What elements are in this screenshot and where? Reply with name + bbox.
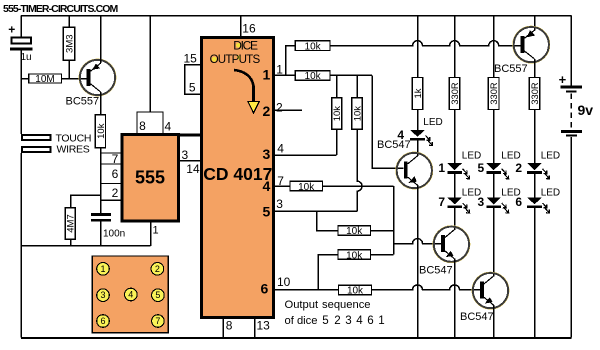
svg-text:6: 6	[367, 314, 373, 327]
svg-text:5: 5	[478, 161, 485, 175]
svg-text:7: 7	[112, 152, 119, 166]
svg-text:2: 2	[515, 161, 522, 175]
svg-text:1u: 1u	[21, 52, 32, 63]
svg-text:100n: 100n	[103, 228, 125, 239]
svg-text:1k: 1k	[413, 88, 424, 98]
svg-text:6: 6	[261, 281, 269, 297]
branch down to 10k row1	[317, 211, 338, 230]
svg-text:LED: LED	[541, 150, 560, 161]
svg-text:1: 1	[438, 161, 445, 175]
svg-text:2: 2	[276, 101, 283, 115]
resistor 330R b	[488, 78, 499, 110]
svg-text:WIRES: WIRES	[57, 144, 90, 156]
capacitor C1 1u	[8, 22, 32, 63]
wire LED4 to Q3 collector	[417, 141, 419, 157]
555 left pin boxes 7 6 2	[101, 152, 122, 201]
resistor 330R a	[449, 78, 460, 110]
svg-text:2: 2	[263, 103, 271, 119]
node A vertical	[393, 186, 395, 255]
svg-text:13: 13	[257, 318, 271, 332]
transistor Q4 BC547	[419, 226, 470, 277]
svg-text:16: 16	[242, 22, 256, 36]
svg-text:+: +	[8, 22, 15, 36]
column 330R / LED5 / LED3 / Q5	[493, 16, 495, 78]
svg-text:4M7: 4M7	[66, 214, 77, 232]
dice led 5	[152, 289, 165, 302]
svg-text:BC547: BC547	[460, 311, 494, 323]
wire 555 top bar to CD4017	[178, 133, 202, 136]
transistor Q3 BC547	[377, 139, 433, 189]
LED 6	[515, 187, 560, 213]
dice led 4	[125, 288, 138, 301]
resistor 3M3	[63, 16, 75, 79]
CD4017 IC U2	[202, 38, 274, 318]
svg-text:4: 4	[128, 290, 133, 300]
svg-text:10k: 10k	[305, 41, 322, 52]
svg-text:sequence: sequence	[322, 299, 371, 311]
wire LED3 to Q5 collector	[493, 208, 495, 276]
svg-text:3: 3	[276, 197, 283, 211]
vertical resistor 10k b	[352, 75, 364, 211]
wire Q2 collector to 330R	[534, 59, 536, 78]
svg-text:3: 3	[263, 146, 271, 162]
dice display board	[92, 256, 168, 333]
svg-text:1: 1	[276, 62, 283, 76]
LED 5	[478, 150, 521, 179]
svg-text:LED: LED	[501, 150, 520, 161]
pin 8/4 box on top of 555	[137, 16, 172, 134]
svg-text:3: 3	[478, 195, 485, 209]
svg-text:4: 4	[263, 178, 271, 194]
svg-text:5: 5	[189, 81, 196, 95]
dice led 2	[151, 263, 164, 276]
wire LED6 to bottom rail	[534, 208, 536, 338]
wire 555 pin 1	[150, 221, 152, 246]
svg-text:7: 7	[155, 316, 160, 326]
resistor 10k (row B)	[318, 250, 393, 290]
svg-text:of dice: of dice	[285, 315, 318, 327]
svg-text:330R: 330R	[489, 82, 499, 105]
svg-text:5: 5	[322, 314, 328, 327]
svg-text:BC547: BC547	[377, 139, 411, 151]
svg-text:LED: LED	[423, 117, 442, 128]
svg-text:14: 14	[186, 162, 200, 176]
capacitor 100n	[91, 200, 125, 246]
resistor 10k (row A)	[338, 226, 371, 236]
label DICE OUTPUTS	[236, 43, 240, 47]
svg-text:LED: LED	[541, 187, 560, 198]
svg-text:10k: 10k	[332, 106, 343, 122]
svg-text:1: 1	[153, 225, 159, 237]
svg-text:8: 8	[139, 119, 146, 133]
svg-text:DICE: DICE	[233, 38, 258, 52]
svg-text:15: 15	[184, 52, 198, 66]
svg-text:10k: 10k	[346, 226, 363, 237]
resistor 10k (output1 to BC547 Q3)	[295, 71, 330, 81]
svg-text:10k: 10k	[346, 250, 363, 261]
svg-text:2: 2	[155, 264, 160, 274]
svg-text:330R: 330R	[450, 82, 460, 105]
wire LED5 to LED3	[493, 174, 495, 198]
svg-text:10: 10	[277, 275, 291, 289]
wire bottom-left	[21, 245, 151, 247]
wire Q3 emitter to bottom rail	[417, 185, 419, 338]
svg-text:555: 555	[135, 167, 165, 187]
dice led 1	[97, 263, 110, 276]
svg-text:2: 2	[112, 186, 119, 200]
wire bottom rail	[21, 337, 571, 339]
svg-text:10k: 10k	[352, 106, 363, 122]
wire pin2 to 4M7	[71, 195, 101, 208]
pin 15/5 box	[184, 52, 202, 95]
resistor 10k (base of Q1)	[95, 115, 107, 153]
wire LED7 to Q4 collector	[454, 208, 456, 230]
svg-text:10k: 10k	[96, 123, 107, 139]
wire pin3 to pin14 link	[180, 160, 202, 162]
curved arrow	[234, 70, 254, 101]
LED 1	[438, 150, 481, 179]
svg-text:8: 8	[226, 318, 233, 332]
resistor 10M	[21, 74, 87, 85]
svg-text:3: 3	[182, 148, 189, 162]
wire left rail upper (cap lead)	[20, 16, 22, 37]
svg-text:10M: 10M	[35, 74, 54, 85]
wire LED1 to LED7	[454, 174, 456, 198]
svg-text:2: 2	[334, 314, 340, 327]
wire 10k to BC557 base with hops	[330, 41, 521, 46]
svg-text:OUTPUTS: OUTPUTS	[210, 53, 261, 66]
svg-text:BC547: BC547	[419, 265, 453, 277]
dice led 3	[97, 289, 110, 302]
LED 4	[397, 117, 442, 146]
svg-text:4: 4	[277, 142, 284, 156]
pin 16	[240, 16, 242, 36]
touch wires	[21, 132, 91, 155]
wire node A to Q4 base with hop	[394, 239, 441, 244]
wire top rail	[21, 15, 571, 17]
dice led 7	[152, 315, 165, 328]
wire left rail lower	[20, 153, 22, 338]
transistor Q2 BC557 (top right PNP)	[494, 16, 550, 75]
resistor 10k (output6)	[339, 285, 372, 294]
svg-text:3M3: 3M3	[65, 34, 76, 52]
svg-text:+: +	[559, 72, 567, 87]
svg-text:330R: 330R	[530, 82, 540, 105]
wire LED2 to LED6	[534, 174, 536, 198]
column 330R / LED1 / LED7 / Q4	[454, 16, 456, 78]
resistor 10k (output4)	[290, 181, 323, 191]
svg-text:10k: 10k	[347, 286, 364, 297]
svg-text:6: 6	[100, 316, 105, 326]
LED 2	[515, 150, 560, 179]
svg-text:1: 1	[378, 314, 384, 327]
battery 9v	[559, 16, 594, 338]
svg-text:4: 4	[356, 314, 363, 327]
vertical resistor 10k a	[332, 75, 344, 155]
wire Q4 emitter to bottom rail	[454, 259, 456, 338]
resistor 1k	[412, 78, 423, 110]
svg-text:7: 7	[438, 195, 445, 209]
svg-text:3: 3	[345, 314, 351, 327]
svg-text:4: 4	[165, 119, 172, 133]
dice led 6	[97, 315, 110, 328]
svg-text:BC557: BC557	[494, 63, 528, 75]
CD4017 pins 8 and 13	[223, 318, 270, 337]
svg-text:LED: LED	[462, 150, 481, 161]
wire Q5 emitter to bottom rail	[493, 305, 495, 338]
svg-text:6: 6	[515, 195, 522, 209]
svg-text:5: 5	[263, 203, 271, 219]
svg-text:9v: 9v	[578, 102, 594, 118]
resistor 10k (output1 to BC557)	[295, 41, 330, 51]
wire to Q3 base	[372, 75, 404, 168]
column 1k / LED4 / Q3	[417, 16, 419, 78]
svg-text:1: 1	[100, 264, 105, 274]
transistor Q1 BC557 (left PNP)	[66, 16, 116, 115]
svg-text:10k: 10k	[305, 71, 322, 82]
resistor 330R c	[529, 78, 540, 110]
svg-text:Output: Output	[285, 299, 319, 311]
LED 3	[478, 187, 521, 213]
riser to top 10k	[286, 46, 295, 76]
svg-text:555-TIMER-CIRCUITS.COM: 555-TIMER-CIRCUITS.COM	[3, 3, 119, 15]
svg-text:1: 1	[263, 66, 271, 82]
wire to Q5 base with hops	[372, 285, 480, 290]
svg-text:5: 5	[155, 290, 160, 300]
svg-text:10k: 10k	[298, 182, 315, 193]
svg-text:BC557: BC557	[66, 95, 100, 107]
svg-text:6: 6	[112, 167, 119, 181]
svg-text:3: 3	[100, 290, 105, 300]
555 IC U1	[122, 134, 179, 221]
svg-text:TOUCH: TOUCH	[56, 132, 92, 144]
transistor Q5 BC547	[460, 272, 509, 323]
LED 7	[438, 187, 481, 213]
resistor 4M7	[65, 208, 77, 246]
wire left rail mid	[20, 50, 22, 134]
